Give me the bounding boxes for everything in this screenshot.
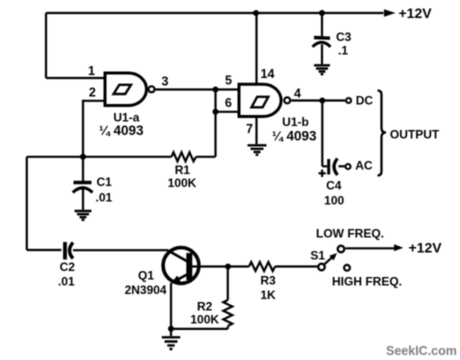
svg-text:.1: .1 — [338, 44, 348, 58]
svg-text:7: 7 — [246, 122, 253, 136]
svg-text:100: 100 — [324, 193, 344, 207]
svg-text:1K: 1K — [260, 288, 276, 302]
svg-text:.01: .01 — [58, 274, 75, 288]
svg-text:SeekIC.com: SeekIC.com — [386, 344, 457, 358]
svg-text:R2: R2 — [197, 300, 213, 314]
svg-text:14: 14 — [261, 67, 275, 81]
svg-text:C2: C2 — [60, 260, 76, 274]
svg-text:AC: AC — [355, 159, 373, 173]
svg-text:1: 1 — [88, 64, 95, 78]
svg-text:.01: .01 — [96, 191, 113, 205]
svg-text:2N3904: 2N3904 — [125, 283, 167, 297]
svg-text:LOW FREQ.: LOW FREQ. — [316, 227, 384, 241]
svg-text:R1: R1 — [175, 163, 191, 177]
svg-text:2: 2 — [89, 85, 96, 99]
svg-text:5: 5 — [225, 74, 232, 88]
svg-text:+12V: +12V — [409, 240, 443, 256]
svg-text:4: 4 — [294, 87, 301, 101]
svg-text:OUTPUT: OUTPUT — [390, 128, 440, 142]
svg-text:C3: C3 — [336, 30, 352, 44]
svg-text:6: 6 — [225, 96, 232, 110]
svg-text:R3: R3 — [260, 274, 276, 288]
svg-text:HIGH FREQ.: HIGH FREQ. — [332, 275, 402, 289]
svg-text:S1: S1 — [310, 249, 325, 263]
svg-text:¼ 4093: ¼ 4093 — [272, 129, 317, 144]
svg-text:C4: C4 — [326, 178, 342, 192]
svg-text:Q1: Q1 — [138, 269, 154, 283]
svg-text:100K: 100K — [190, 313, 219, 327]
svg-text:100K: 100K — [168, 176, 197, 190]
svg-text:¼ 4093: ¼ 4093 — [99, 123, 144, 138]
svg-text:U1-b: U1-b — [282, 115, 309, 129]
svg-text:+12V: +12V — [399, 5, 433, 21]
svg-text:DC: DC — [356, 94, 374, 108]
svg-text:C1: C1 — [97, 175, 113, 189]
svg-text:3: 3 — [162, 75, 169, 89]
